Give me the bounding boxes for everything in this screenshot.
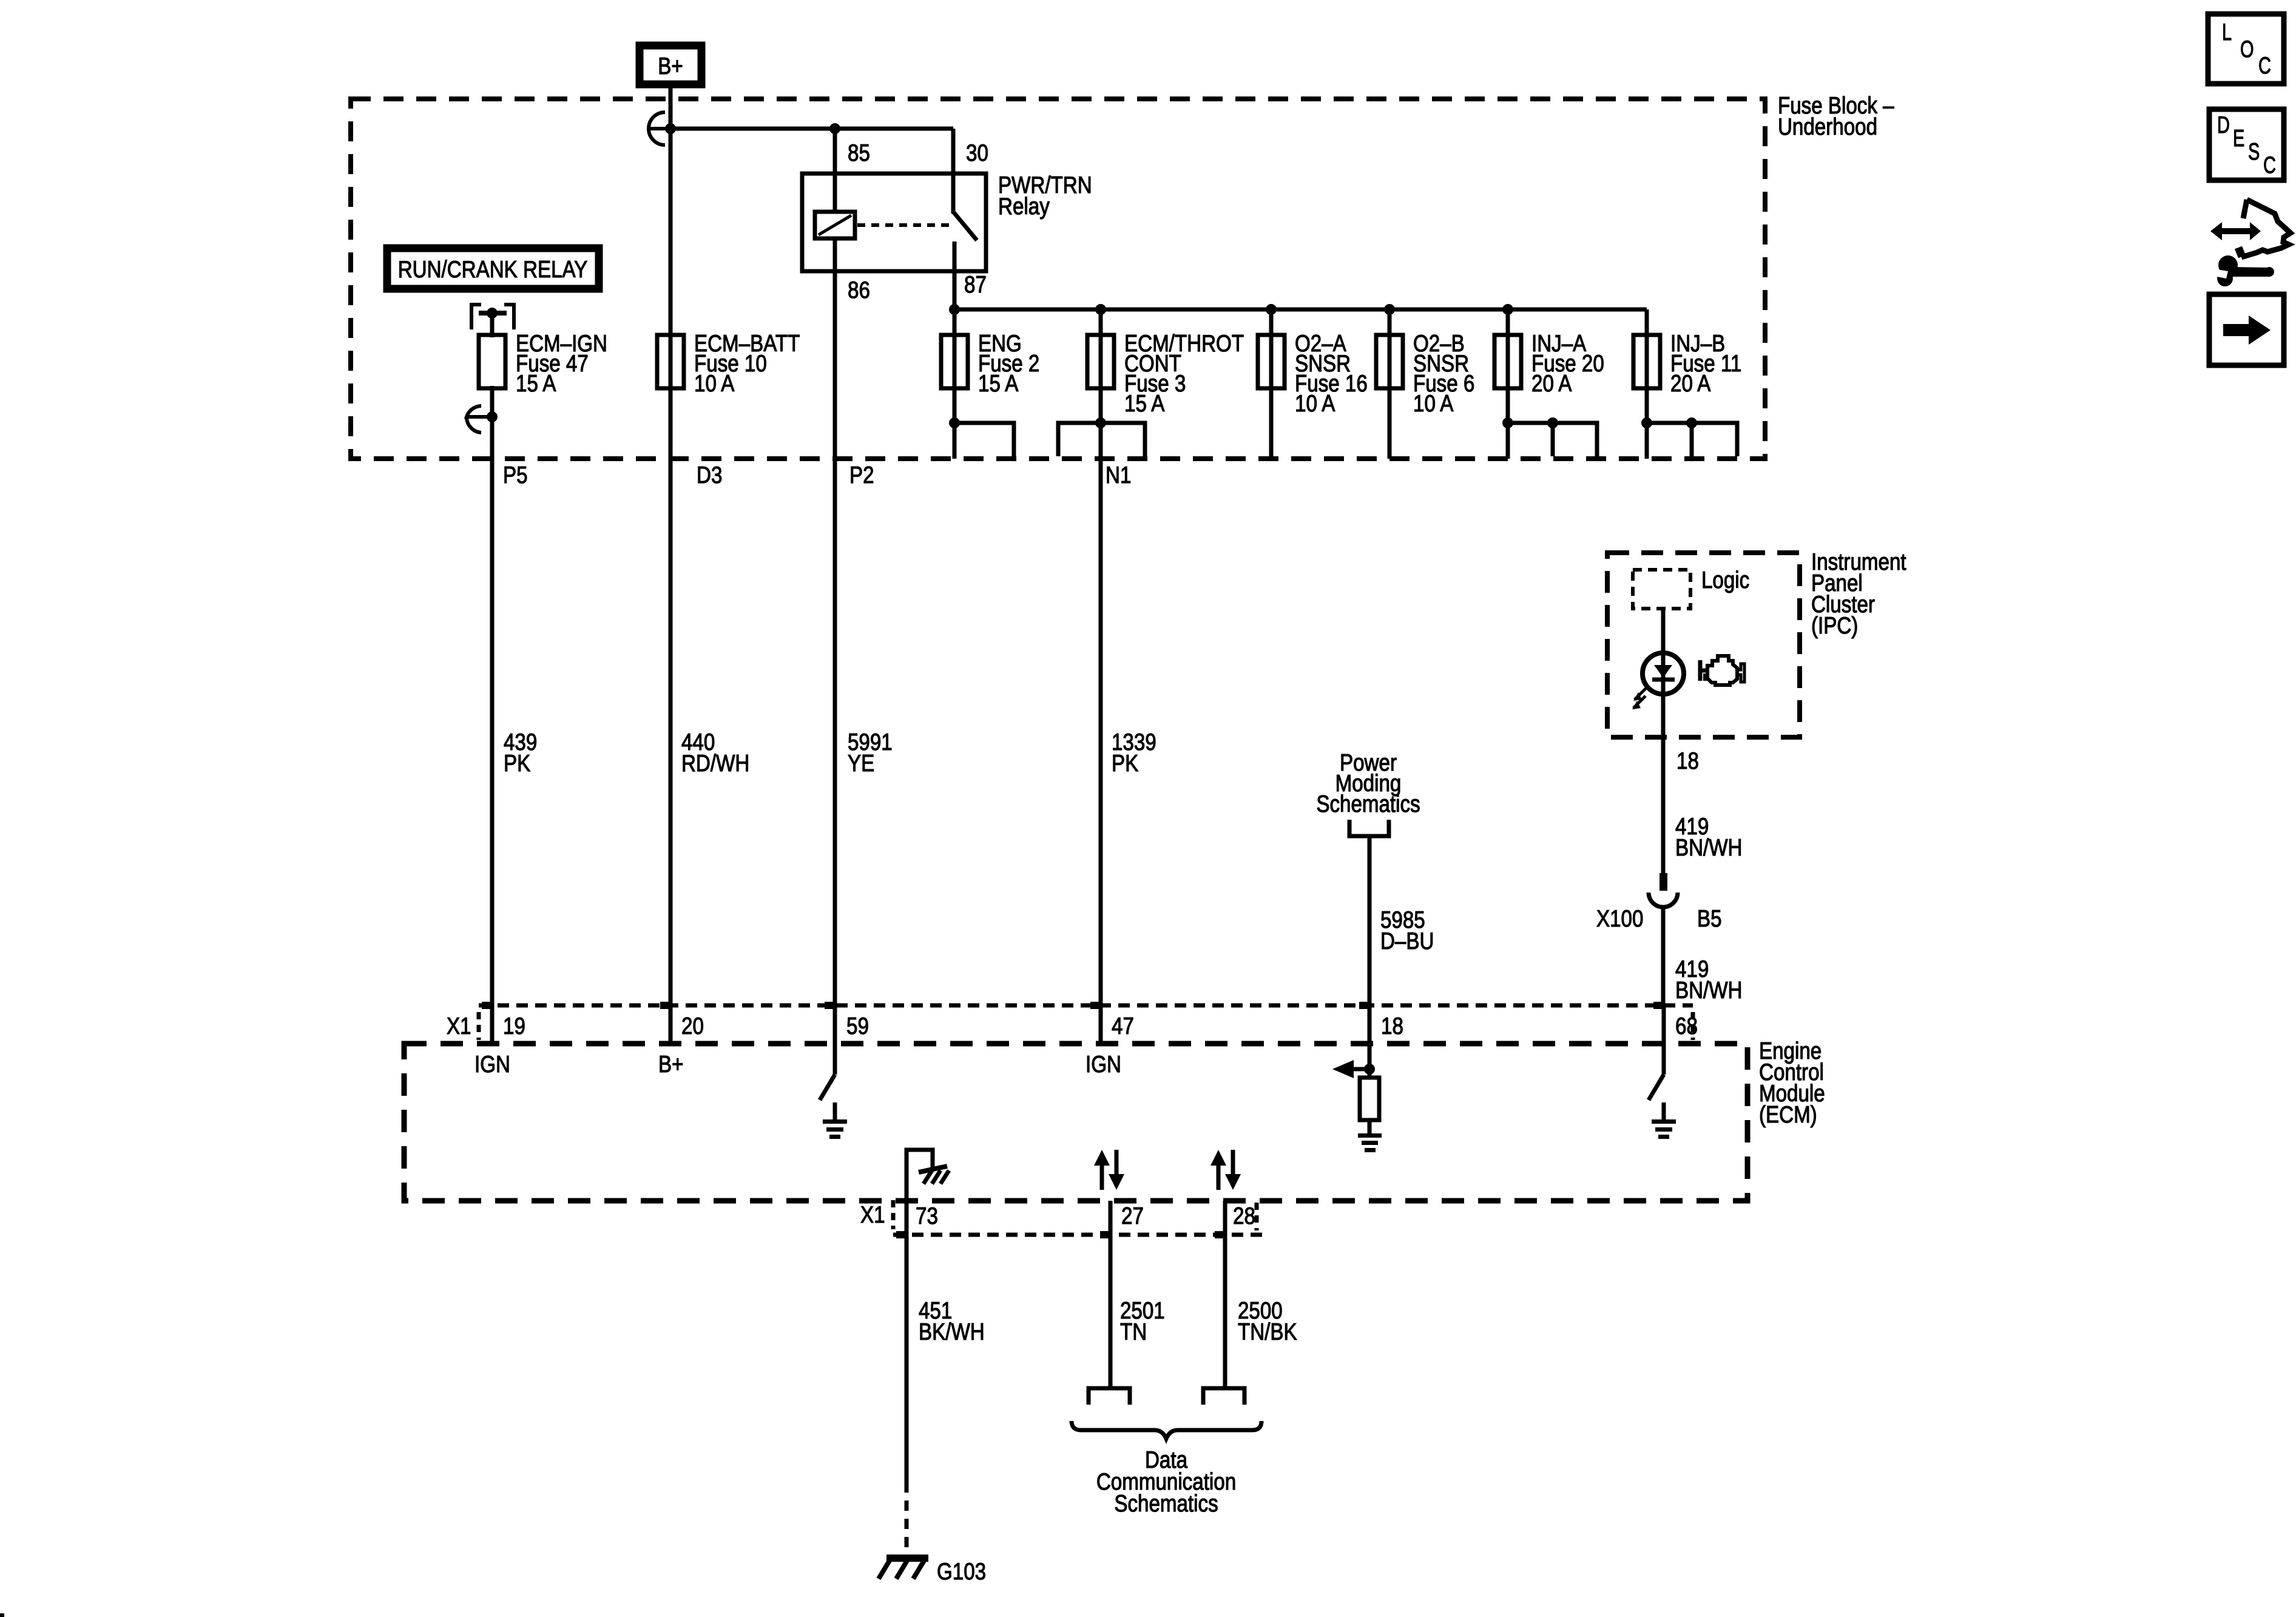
wire X100 to ECM pin 68 bbox=[1662, 1005, 1666, 1044]
connector X1 bottom right tick bbox=[1255, 1203, 1259, 1230]
node dot below ECM-IGN fuse bbox=[487, 411, 498, 422]
svg-text:86: 86 bbox=[848, 277, 870, 303]
svg-text:BK/WH: BK/WH bbox=[919, 1319, 985, 1345]
engine icon MIL bbox=[1700, 656, 1744, 685]
node dots INJ-B staple bbox=[1641, 417, 1652, 428]
node dot ENG staple bbox=[949, 417, 960, 428]
node dot O2-B branch bbox=[1384, 304, 1395, 315]
pin terminal ticks at bottom row bbox=[896, 1231, 1225, 1238]
wire label 419 BN/WH lower bbox=[1675, 956, 1743, 1004]
relay linkage dashed bbox=[857, 223, 950, 227]
wire label 419 BN/WH upper bbox=[1675, 814, 1743, 861]
wire LED to IPC bottom bbox=[1661, 694, 1666, 737]
svg-text:10 A: 10 A bbox=[1295, 391, 1335, 417]
wire ECM-IGN fuse feed from clip bbox=[490, 313, 495, 337]
stray period bottom-left bbox=[0, 1613, 4, 1617]
svg-text:B+: B+ bbox=[658, 53, 683, 79]
wire pin 73 to G103 bbox=[905, 1201, 909, 1562]
svg-text:(IPC): (IPC) bbox=[1811, 613, 1858, 639]
wire top feed bus from B+ to relay pin 30 bbox=[670, 127, 953, 131]
staple jumper ECM/THROT fuse bbox=[1058, 423, 1145, 456]
svg-text:30: 30 bbox=[966, 140, 988, 166]
X100 and B5 labels bbox=[1596, 906, 1722, 932]
wire pin 27 down bbox=[1109, 1201, 1113, 1386]
svg-text:C: C bbox=[2263, 152, 2276, 178]
wire O2-B fuse drop bbox=[1388, 309, 1392, 459]
svg-text:20 A: 20 A bbox=[1670, 371, 1710, 397]
svg-text:28: 28 bbox=[1233, 1203, 1255, 1229]
svg-text:Schematics: Schematics bbox=[1316, 791, 1420, 817]
svg-text:Schematics: Schematics bbox=[1114, 1491, 1218, 1517]
relay switch blade bbox=[953, 212, 977, 240]
svg-text:PK: PK bbox=[1112, 751, 1138, 777]
wire INJ-B fuse drop bbox=[1645, 309, 1649, 459]
svg-text:87: 87 bbox=[964, 272, 987, 298]
power moding schematics label bbox=[1316, 750, 1420, 817]
RUN/CRANK RELAY label box bbox=[387, 248, 599, 289]
svg-text:O: O bbox=[2240, 36, 2254, 62]
clip connector arc at B+ wire bbox=[649, 112, 670, 145]
node dot at relay coil branch bbox=[829, 123, 840, 134]
svg-text:S: S bbox=[2248, 139, 2260, 165]
ECM internal switch to ground at pin 68 bbox=[1649, 1044, 1676, 1139]
svg-text:10 A: 10 A bbox=[1413, 391, 1453, 417]
svg-text:15 A: 15 A bbox=[978, 371, 1018, 397]
svg-text:X1: X1 bbox=[860, 1202, 885, 1228]
svg-text:59: 59 bbox=[846, 1013, 869, 1039]
fuse clip at ECM-IGN fuse top bbox=[471, 305, 514, 329]
icon forward arrow box bbox=[2209, 294, 2284, 365]
brace for data communication bbox=[1072, 1421, 1261, 1439]
svg-text:N1: N1 bbox=[1106, 462, 1131, 488]
connector X1 top row dashed line bbox=[479, 1004, 1693, 1008]
wire pin 28 down bbox=[1223, 1201, 1227, 1386]
svg-text:18: 18 bbox=[1381, 1013, 1403, 1039]
LED indicator symbol bbox=[1632, 653, 1684, 709]
fuse O2-A SNSR Fuse 16 bbox=[1258, 331, 1368, 417]
svg-text:P5: P5 bbox=[503, 462, 528, 488]
data communication label bbox=[1096, 1447, 1236, 1517]
wire ENG fuse drop bbox=[953, 309, 957, 459]
svg-text:19: 19 bbox=[503, 1013, 525, 1039]
fuse ECM-IGN Fuse 47 bbox=[479, 331, 607, 397]
staple jumper INJ-A fuse bbox=[1508, 423, 1597, 456]
ground G103 chassis symbol bbox=[879, 1558, 986, 1585]
icon LOC box bbox=[2208, 14, 2284, 84]
icon harness with wrench bbox=[2208, 200, 2291, 286]
ECM internal switch to ground at pin 59 bbox=[820, 1044, 847, 1139]
svg-text:D–BU: D–BU bbox=[1380, 928, 1434, 954]
node dot ECM/THROT staple bbox=[1095, 417, 1106, 428]
IPC label bbox=[1811, 549, 1906, 639]
svg-text:RD/WH: RD/WH bbox=[681, 751, 749, 777]
svg-text:C: C bbox=[2258, 53, 2271, 79]
wire logic to LED bbox=[1661, 609, 1666, 654]
fuse INJ-A Fuse 20 bbox=[1494, 331, 1604, 397]
fuse block pin labels bbox=[503, 462, 1131, 488]
fuse bus horizontal 87 to INJ-B bbox=[954, 308, 1647, 312]
svg-text:IGN: IGN bbox=[474, 1052, 510, 1078]
svg-text:YE: YE bbox=[848, 751, 874, 777]
ECM label bbox=[1759, 1038, 1825, 1128]
svg-text:D: D bbox=[2217, 112, 2230, 138]
svg-text:X1: X1 bbox=[447, 1013, 471, 1039]
node dots INJ-A staple bbox=[1502, 417, 1513, 428]
svg-text:15 A: 15 A bbox=[1124, 391, 1164, 417]
svg-text:P2: P2 bbox=[849, 462, 874, 488]
svg-text:85: 85 bbox=[848, 140, 870, 166]
logic dashed box bbox=[1633, 570, 1690, 609]
icon DESC box bbox=[2209, 109, 2284, 180]
fuse ECM-BATT Fuse 10 bbox=[657, 331, 800, 397]
ECM dashed box bbox=[404, 1044, 1747, 1201]
wire B+ vertical to ECM-BATT fuse and down to ECM pin 20 bbox=[669, 88, 673, 1044]
connector bracket pin 27 bbox=[1089, 1388, 1130, 1405]
connector X1 bottom row dashed line bbox=[893, 1233, 1262, 1237]
wire ECM-IGN fuse to ECM pin 19 bbox=[490, 386, 495, 1044]
connector X1 left end tick bbox=[477, 1012, 481, 1040]
svg-text:68: 68 bbox=[1675, 1013, 1698, 1039]
svg-text:B5: B5 bbox=[1697, 906, 1722, 932]
svg-text:20 A: 20 A bbox=[1531, 371, 1572, 397]
B+ power symbol bbox=[640, 46, 701, 84]
svg-text:E: E bbox=[2233, 126, 2244, 152]
wire relay pin 85 branch bbox=[833, 129, 837, 214]
svg-text:BN/WH: BN/WH bbox=[1675, 977, 1743, 1004]
wire IPC to X100 bbox=[1661, 737, 1666, 874]
node dot ECM/THROT branch bbox=[1095, 304, 1106, 315]
staple jumper ENG fuse bbox=[954, 423, 1014, 456]
wire labels bottom bbox=[919, 1298, 1297, 1345]
svg-text:18: 18 bbox=[1676, 748, 1699, 774]
node dot 87 junction bbox=[949, 304, 960, 315]
node dot O2-A branch bbox=[1266, 304, 1277, 315]
connector bracket pin 28 bbox=[1203, 1388, 1244, 1405]
svg-text:Underhood: Underhood bbox=[1778, 114, 1877, 140]
svg-text:Relay: Relay bbox=[998, 194, 1050, 220]
wire relay pin 87 to fuse bus bbox=[953, 241, 957, 312]
wire relay pin 86 down to ECM pin 59 bbox=[833, 237, 837, 1044]
svg-text:D3: D3 bbox=[697, 462, 722, 488]
svg-text:PK: PK bbox=[504, 751, 530, 777]
wire label 5985 D-BU bbox=[1380, 907, 1434, 954]
svg-text:73: 73 bbox=[916, 1203, 938, 1229]
IPC dashed box bbox=[1607, 553, 1800, 737]
wire circuit labels bbox=[504, 729, 1156, 777]
wire relay pin 30 drop bbox=[951, 129, 956, 214]
X1 bottom row labels bbox=[860, 1202, 1255, 1229]
wire ECM/THROT fuse to ECM pin 47 bbox=[1099, 309, 1103, 1044]
fuse ENG Fuse 2 bbox=[941, 331, 1039, 397]
ECM internal CAN arrows at pin 27 bbox=[1094, 1150, 1124, 1190]
fuse O2-B SNSR Fuse 6 bbox=[1376, 331, 1474, 417]
X1 top row labels bbox=[447, 1013, 1698, 1039]
svg-text:TN: TN bbox=[1120, 1319, 1147, 1345]
relay coil bbox=[815, 212, 855, 238]
svg-text:RUN/CRANK RELAY: RUN/CRANK RELAY bbox=[398, 257, 588, 283]
wire power moding to ECM pin 18 bbox=[1368, 836, 1372, 1044]
relay labels bbox=[848, 140, 1092, 303]
fuse block underhood dashed box bbox=[351, 99, 1765, 459]
svg-text:G103: G103 bbox=[937, 1559, 986, 1585]
fuse INJ-B Fuse 11 bbox=[1633, 331, 1741, 397]
svg-text:20: 20 bbox=[681, 1013, 704, 1039]
svg-text:B+: B+ bbox=[658, 1052, 684, 1078]
fuse ECM/THROT CONT Fuse 3 bbox=[1087, 331, 1244, 417]
svg-text:47: 47 bbox=[1112, 1013, 1134, 1039]
ECM internal output arrow and resistor to ground at pin 18 bbox=[1332, 1044, 1382, 1152]
svg-text:BN/WH: BN/WH bbox=[1675, 835, 1743, 861]
node dot at B+ feed junction bbox=[665, 123, 676, 134]
svg-text:L: L bbox=[2222, 19, 2232, 46]
svg-text:X100: X100 bbox=[1596, 906, 1643, 932]
node dot INJ-A branch bbox=[1502, 304, 1513, 315]
svg-text:TN/BK: TN/BK bbox=[1238, 1319, 1297, 1345]
connector X1 bottom left tick bbox=[891, 1200, 896, 1229]
relay PWR/TRN box bbox=[802, 174, 986, 271]
clip connector arc below ECM-IGN fuse bbox=[467, 406, 492, 433]
svg-text:IGN: IGN bbox=[1086, 1052, 1121, 1078]
fuse block label bbox=[1778, 93, 1894, 140]
off-page bracket power moding bbox=[1349, 820, 1389, 836]
svg-text:(ECM): (ECM) bbox=[1759, 1102, 1817, 1128]
ECM internal labels IGN / B+ / IGN bbox=[474, 1052, 1121, 1078]
wire INJ-A fuse drop bbox=[1506, 309, 1510, 459]
connector X1 right end tick bbox=[1691, 1012, 1695, 1040]
wire O2-A fuse drop bbox=[1269, 309, 1274, 459]
staple jumper INJ-B fuse bbox=[1647, 423, 1737, 456]
svg-text:10 A: 10 A bbox=[694, 371, 734, 397]
connector X100 symbol bbox=[1649, 873, 1678, 1005]
ECM internal CAN arrows at pin 28 bbox=[1210, 1150, 1241, 1190]
pin terminal ticks at X1 row bbox=[482, 1002, 1664, 1009]
ECM internal keep-alive ground at pin 73 bbox=[907, 1150, 949, 1201]
svg-text:Logic: Logic bbox=[1701, 567, 1749, 593]
svg-text:15 A: 15 A bbox=[516, 371, 556, 397]
svg-text:27: 27 bbox=[1121, 1203, 1144, 1229]
